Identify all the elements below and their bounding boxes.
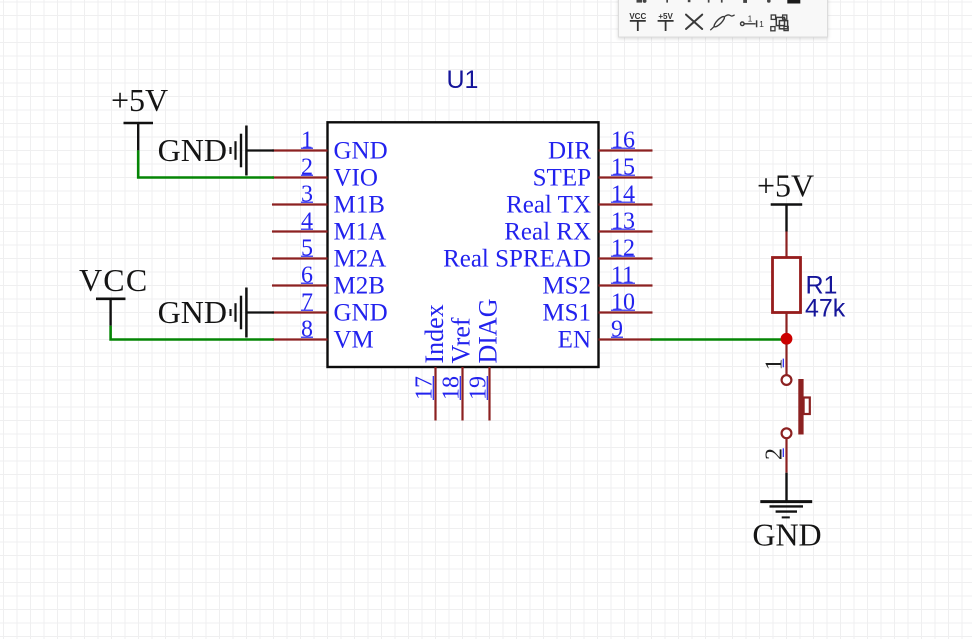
svg-text:4: 4 — [301, 208, 313, 234]
svg-text:12: 12 — [611, 235, 635, 261]
toolbar icon +5V net flag — [658, 12, 674, 31]
refdes label U1 — [447, 66, 479, 94]
svg-text:Index: Index — [420, 304, 449, 363]
svg-text:47k: 47k — [805, 295, 846, 323]
pin 17 Index — [412, 304, 449, 420]
toolbar panel — [619, 0, 828, 37]
pin 18 Vref — [439, 317, 476, 420]
svg-text:Vref: Vref — [446, 317, 475, 363]
pin 16 DIR — [548, 127, 653, 164]
svg-text:16: 16 — [611, 127, 635, 153]
svg-text:+5V: +5V — [757, 168, 814, 204]
svg-text:2: 2 — [301, 154, 313, 180]
pin 3 M1B — [272, 181, 385, 218]
svg-text:+5V: +5V — [111, 82, 168, 118]
svg-text:1: 1 — [748, 14, 753, 23]
svg-text:Real RX: Real RX — [504, 219, 591, 246]
pin 14 Real TX — [506, 181, 652, 218]
svg-text:Real SPREAD: Real SPREAD — [443, 246, 591, 273]
resistor R1 — [773, 232, 801, 340]
pin 5 M2A — [272, 235, 386, 272]
svg-text:Real TX: Real TX — [506, 192, 591, 219]
svg-text:+5V: +5V — [658, 12, 673, 21]
svg-text:11: 11 — [611, 262, 634, 288]
svg-text:GND: GND — [158, 294, 227, 330]
svg-text:EN: EN — [558, 327, 591, 354]
wire +5V to VIO pin 2 — [138, 150, 274, 177]
svg-text:DIR: DIR — [548, 138, 591, 165]
pin 1 GND — [272, 127, 388, 164]
svg-text:STEP: STEP — [533, 165, 591, 192]
pin 12 Real SPREAD — [443, 235, 652, 272]
toolbar icon VCC net flag — [629, 12, 646, 31]
svg-text:GND: GND — [158, 132, 227, 168]
toolbar icon net label pen — [710, 15, 734, 30]
wire VCC to VM pin 8 — [111, 326, 274, 340]
svg-text:7: 7 — [301, 289, 313, 315]
svg-text:VCC: VCC — [629, 12, 646, 21]
svg-text:VM: VM — [334, 327, 374, 354]
svg-text:M1A: M1A — [334, 219, 387, 246]
ground GND earth bottom right — [752, 473, 821, 553]
svg-text:14: 14 — [611, 181, 635, 207]
pushbutton switch — [762, 344, 810, 473]
svg-text:DIAG: DIAG — [473, 299, 502, 364]
svg-text:M1B: M1B — [334, 192, 385, 219]
pin 7 GND — [272, 289, 388, 326]
power flag +5V left — [111, 82, 168, 150]
power flag +5V right — [757, 168, 814, 232]
svg-text:15: 15 — [611, 154, 635, 180]
svg-text:GND: GND — [752, 517, 821, 553]
ground flag GND at pin 1 — [158, 126, 274, 176]
pin 6 M2B — [272, 262, 385, 299]
svg-text:13: 13 — [611, 208, 635, 234]
svg-text:U1: U1 — [447, 66, 479, 94]
power flag VCC — [79, 262, 148, 326]
svg-text:1: 1 — [301, 127, 313, 153]
toolbar row1 partial icons — [637, 0, 801, 4]
svg-text:8: 8 — [301, 316, 313, 342]
svg-text:9: 9 — [611, 316, 623, 342]
svg-text:GND: GND — [334, 138, 388, 165]
ground flag GND at pin 7 — [158, 288, 274, 338]
chip U1 body — [328, 122, 599, 367]
wire EN to junction — [651, 338, 787, 341]
pin 9 EN — [558, 316, 653, 353]
svg-text:VIO: VIO — [334, 165, 378, 192]
pin 15 STEP — [533, 154, 653, 191]
svg-text:10: 10 — [611, 289, 635, 315]
svg-text:GND: GND — [334, 300, 388, 327]
svg-text:VCC: VCC — [79, 262, 148, 298]
pin 19 DIAG — [466, 299, 503, 421]
pin 4 M1A — [272, 208, 386, 245]
svg-text:M2B: M2B — [334, 273, 385, 300]
toolbar icon pin — [741, 14, 765, 29]
svg-text:MS2: MS2 — [542, 273, 591, 300]
svg-text:6: 6 — [301, 262, 313, 288]
svg-text:3: 3 — [301, 181, 313, 207]
pin 8 VM — [272, 316, 374, 353]
svg-text:5: 5 — [301, 235, 313, 261]
svg-text:MS1: MS1 — [542, 300, 591, 327]
pin 11 MS2 — [542, 262, 652, 299]
pin 2 VIO — [272, 154, 378, 191]
toolbar icon selection/group — [771, 15, 788, 31]
toolbar icon no-connect X — [686, 15, 702, 29]
junction dot — [781, 333, 793, 345]
pin 13 Real RX — [504, 208, 652, 245]
svg-text:1: 1 — [759, 19, 764, 29]
svg-text:M2A: M2A — [334, 246, 387, 273]
label R1 47k — [805, 272, 846, 323]
pin 10 MS1 — [542, 289, 652, 326]
